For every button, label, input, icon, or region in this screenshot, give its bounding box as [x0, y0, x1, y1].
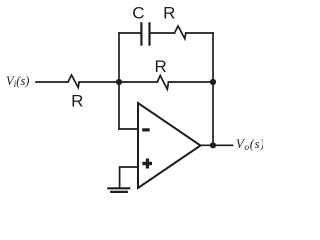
resistor R3 (top R)	[175, 26, 186, 39]
node B junction dot	[210, 79, 216, 85]
wire top rail right	[186, 32, 213, 34]
op-amp U1 triangle	[138, 103, 201, 188]
svg-text:R: R	[163, 4, 175, 23]
wire top rail left	[119, 32, 141, 34]
wire input horizontal	[36, 81, 68, 83]
capacitor C1 plates	[141, 22, 149, 45]
wire non-inverting input	[120, 167, 138, 187]
op-amp minus pin label	[142, 128, 150, 131]
wire inverting input	[119, 128, 138, 130]
wire R2 to node B	[169, 81, 214, 83]
svg-text:Vo(s): Vo(s)	[236, 137, 263, 153]
node A junction dot	[116, 79, 122, 85]
wire output	[201, 144, 233, 146]
wire input R to node A	[79, 81, 119, 83]
resistor R2 (middle R)	[157, 76, 168, 90]
output node junction dot	[210, 142, 216, 148]
wire node B vertical (top rail to output node)	[212, 33, 214, 145]
svg-text:R: R	[71, 91, 83, 110]
wire node A vertical (up to feedback, down to inverting input)	[118, 33, 120, 129]
svg-text:C: C	[132, 4, 144, 23]
resistor R1 (input R)	[68, 75, 79, 88]
svg-text:R: R	[155, 57, 167, 76]
svg-text:Vi(s): Vi(s)	[6, 74, 29, 90]
op-amp plus pin label	[142, 159, 152, 169]
wire node A to resistor R2	[119, 81, 157, 83]
wire capacitor to resistor R3	[149, 32, 174, 34]
ground	[108, 188, 129, 192]
